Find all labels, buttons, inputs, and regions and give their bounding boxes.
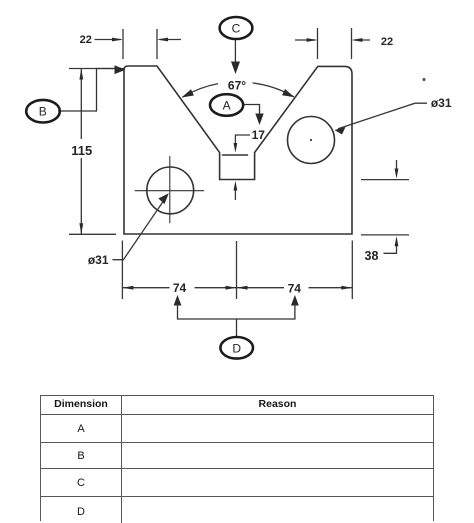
dim 17 lower arrow line <box>234 187 236 200</box>
table row B <box>41 443 433 469</box>
arrowhead D left <box>174 295 182 306</box>
svg-text:ø31: ø31 <box>88 253 109 267</box>
svg-text:A: A <box>223 99 231 113</box>
dim 22 right arrows <box>295 39 370 41</box>
table <box>40 395 434 521</box>
balloon B <box>26 100 60 123</box>
arrowhead 38 upper <box>395 169 399 179</box>
svg-text:38: 38 <box>365 249 379 263</box>
arrowhead 22R right <box>307 38 318 42</box>
arrowhead 74 center-right <box>237 286 248 290</box>
dim 74 lines <box>122 287 352 289</box>
svg-text:17: 17 <box>252 128 266 142</box>
svg-text:74: 74 <box>288 281 302 295</box>
stray ink dot <box>422 78 425 81</box>
leader dia31 right <box>338 103 427 129</box>
svg-text:67°: 67° <box>228 78 246 92</box>
arrowhead dia31 left <box>158 193 169 204</box>
svg-text:ø31: ø31 <box>431 96 452 110</box>
arrowhead 17 lower <box>234 181 238 191</box>
leader D bracket <box>178 304 295 337</box>
arrowhead A <box>255 114 263 126</box>
arrowhead 115 bottom <box>79 223 83 234</box>
balloon A <box>210 94 243 116</box>
arrowhead 17 upper <box>234 143 238 153</box>
dim 38 lower extension line <box>361 234 409 236</box>
arrowhead 22L right <box>112 38 123 42</box>
leader B line <box>58 69 116 112</box>
part outline <box>124 66 352 234</box>
right circle center dot <box>310 139 312 141</box>
arrowhead D right <box>291 295 299 306</box>
leader A line <box>244 105 260 116</box>
dim 115 bottom extension line <box>69 233 116 235</box>
arrowhead 74 far-left <box>122 286 133 290</box>
arrowhead 74 center-left <box>226 286 237 290</box>
svg-text:74: 74 <box>173 281 187 295</box>
arrowhead 22R left <box>352 38 363 42</box>
arrowhead B <box>115 65 126 74</box>
table row C <box>41 469 433 497</box>
arrowhead 38 lower <box>395 236 399 246</box>
table row A <box>41 415 433 443</box>
arrowhead 115 top <box>79 69 83 80</box>
svg-text:22: 22 <box>381 36 393 48</box>
arrowhead 22L left <box>157 38 168 42</box>
dim 22 left arrows <box>95 39 182 41</box>
dim 74 extension lines <box>122 241 352 300</box>
leader dia31 left <box>113 197 167 259</box>
svg-text:C: C <box>232 22 241 36</box>
arrowhead dia31 right <box>335 127 346 135</box>
table header row <box>41 396 433 415</box>
slot inner line <box>223 154 248 156</box>
dim 17 bracket <box>235 135 250 147</box>
angle arc left <box>183 84 219 98</box>
dim 38 lower arrow line <box>384 243 397 253</box>
angle arc right <box>253 83 295 97</box>
left circle centerlines <box>135 157 203 223</box>
svg-text:22: 22 <box>80 34 92 46</box>
dim 38 upper extension line <box>361 179 409 181</box>
dim 115 top extension line <box>69 68 124 70</box>
svg-text:115: 115 <box>71 143 92 158</box>
arrowhead angle arc right <box>282 89 294 97</box>
arrowhead C <box>231 62 240 75</box>
dim 38 upper arrow line <box>396 160 398 172</box>
arrowhead angle arc left <box>182 89 194 97</box>
arrowhead 74 far-right <box>341 286 352 290</box>
leader C line <box>234 38 236 63</box>
svg-text:B: B <box>39 105 47 119</box>
dim 22 right extension lines <box>318 28 352 59</box>
balloon C <box>220 17 253 39</box>
dim 22 left extension lines <box>123 29 157 59</box>
table row D <box>41 497 433 523</box>
left circle <box>147 167 194 214</box>
dim 115 line <box>80 69 82 235</box>
balloon D <box>220 337 253 359</box>
svg-text:D: D <box>232 341 241 355</box>
right circle <box>288 117 335 164</box>
